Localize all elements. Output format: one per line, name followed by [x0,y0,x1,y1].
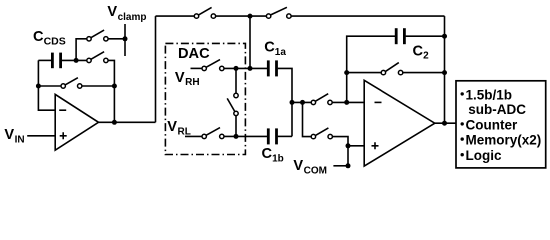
wire vertical from top rail node down to C1a input node [249,16,251,68]
node C1a input junction with rail vertical [248,66,253,71]
node top rail junction [248,14,253,19]
svg-text:clamp: clamp [118,12,147,23]
wire VRL row to C1b left plate [224,135,267,137]
wire U2 feedback switch row right segment [403,72,445,74]
wire Vclamp terminal stub [124,24,126,56]
node C2 right junction [442,34,447,39]
label VIN [4,127,24,145]
switch S4 after CCDS [87,52,108,63]
node U2 non-inverting input junction [346,143,351,148]
wire U1 inverting input left vertical [38,60,55,110]
svg-text:1b: 1b [272,154,284,165]
node Vclamp junction [123,36,128,41]
wire C1b right plate to summing vertical [278,135,292,137]
svg-text:Counter: Counter [466,117,518,132]
wire S9 to U2 inverting input [332,101,364,103]
wire from CCDS right plate to node [62,59,87,61]
wire from S4 to corner down to U1 output [108,60,114,122]
svg-text:V: V [293,158,303,174]
svg-text:2: 2 [423,51,429,62]
label C1a [264,40,286,58]
wire summing node to S9 [292,101,311,103]
svg-text:1a: 1a [275,47,287,58]
node CCDS right plate junction [74,58,79,63]
node U2 feedback switch right junction [442,70,447,75]
switch S10 U2 feedback shorting switch [381,63,403,75]
pin U2 plus symbol [372,142,379,149]
node bullet 1 [461,92,464,95]
DAC box dash-dot border [165,43,245,154]
node feedback branch on inverting vertical [36,84,41,89]
label Vclamp [107,4,146,23]
wire feedback switch row right segment [82,85,114,87]
capacitor C1b [268,128,276,144]
wire feedback switch row left segment [38,85,60,87]
label sub-ADC [468,102,526,117]
pin U1 plus symbol [60,132,67,139]
wire top rail left vertical from op-amp U1 output up [155,16,157,122]
switch S9 summing node series switch [311,94,332,105]
label CCDS [33,29,66,47]
switch S1 on top rail [194,7,215,18]
svg-text:1.5b/1b: 1.5b/1b [466,87,513,102]
capacitor C2 [396,28,404,44]
wire clamp switch row left segment with corner down to CCDS node [76,39,87,61]
wire U2 output [435,122,456,124]
svg-text:V: V [167,119,177,135]
wire clamp switch row right segment [108,38,125,40]
node U1 output junction [112,120,117,125]
node VCOM junction [346,163,351,168]
label VCOM [293,158,327,176]
wire chain upper segment [235,68,237,93]
label Memory(x2) [466,133,542,148]
svg-text:C: C [262,146,273,162]
wire C2 left branch vertical and to C2 left plate [347,36,395,102]
svg-text:sub-ADC: sub-ADC [468,102,526,117]
wire top rail segment 1 [156,15,195,17]
op-amp U1 [55,94,98,150]
op-amp U2 [364,80,435,166]
wire branch down from summing row to lower switch row [303,102,312,136]
label C2 [413,43,430,61]
label Counter [466,117,518,132]
node bullet 3 [461,137,464,140]
pin U2 minus symbol [375,101,382,103]
capacitor C1a [268,60,276,76]
capacitor CCDS [52,53,60,69]
switch S3 clamp switch [87,30,108,41]
switch S5 U1 feedback shorting switch [61,78,82,89]
node summing node junction [290,100,295,105]
wire down from non-inverting node to VCOM [347,146,349,166]
node branch to lower switch row [300,100,305,105]
wire C2 right plate to output vertical [406,35,445,37]
switch S11 VCOM sampling switch [311,128,332,139]
wire VIN input to U1 non-inverting input [27,135,55,137]
svg-text:V: V [4,127,14,143]
svg-text:CDS: CDS [44,36,66,48]
node chain bottom junction [234,134,239,139]
wire U2 non-inverting input [348,145,364,147]
svg-text:V: V [175,70,185,86]
svg-text:C: C [413,43,424,59]
switch S8 VRL select [202,128,224,139]
svg-text:Memory(x2): Memory(x2) [466,133,542,148]
label DAC [178,46,210,62]
wire S11 to corner down to U2 non-inverting node [333,137,348,146]
node chain top junction [234,66,239,71]
wire chain lower segment [235,116,237,137]
node feedback to output vertical junction [112,84,117,89]
svg-text:DAC: DAC [178,46,210,62]
label 1.5b/1b [466,87,513,102]
node C2 branch junction at U2 inverting input [344,100,349,105]
wire U1 output [99,121,156,123]
wire VCOM terminal [333,165,348,167]
node bullet 4 [461,153,464,156]
wire VRH terminal stub [191,67,202,69]
wire VRH row to C1a left plate [224,67,267,69]
wire top rail right vertical down to op-amp U2 output [444,16,446,123]
label Logic [466,148,502,163]
svg-text:COM: COM [304,165,327,176]
wire VRL terminal stub [185,135,202,137]
label C1b [262,146,284,164]
node U2 feedback switch left junction [344,70,349,75]
svg-text:RH: RH [185,77,199,88]
switch S2 on top rail [266,7,291,18]
node U2 output junction [442,121,447,126]
switch S7 vertical DAC chain switch [227,93,238,115]
sub-ADC block box [456,81,546,168]
label VRL [167,119,191,137]
svg-text:Logic: Logic [466,148,502,163]
wire U2 feedback switch row left segment [347,72,381,74]
pin U1 minus symbol [59,109,66,111]
svg-text:C: C [264,40,275,56]
wire from inverting node corner to capacitor CCDS [38,59,51,61]
svg-text:IN: IN [15,134,25,145]
svg-text:V: V [107,4,117,20]
node bullet 2 [461,122,464,125]
wire top rail segment 3 [291,15,444,17]
label VRH [175,70,200,88]
wire top rail segment 2 [216,15,266,17]
wire C1a right plate to summing vertical [278,68,292,136]
svg-text:C: C [33,29,44,45]
switch S6 VRH select [202,60,224,71]
